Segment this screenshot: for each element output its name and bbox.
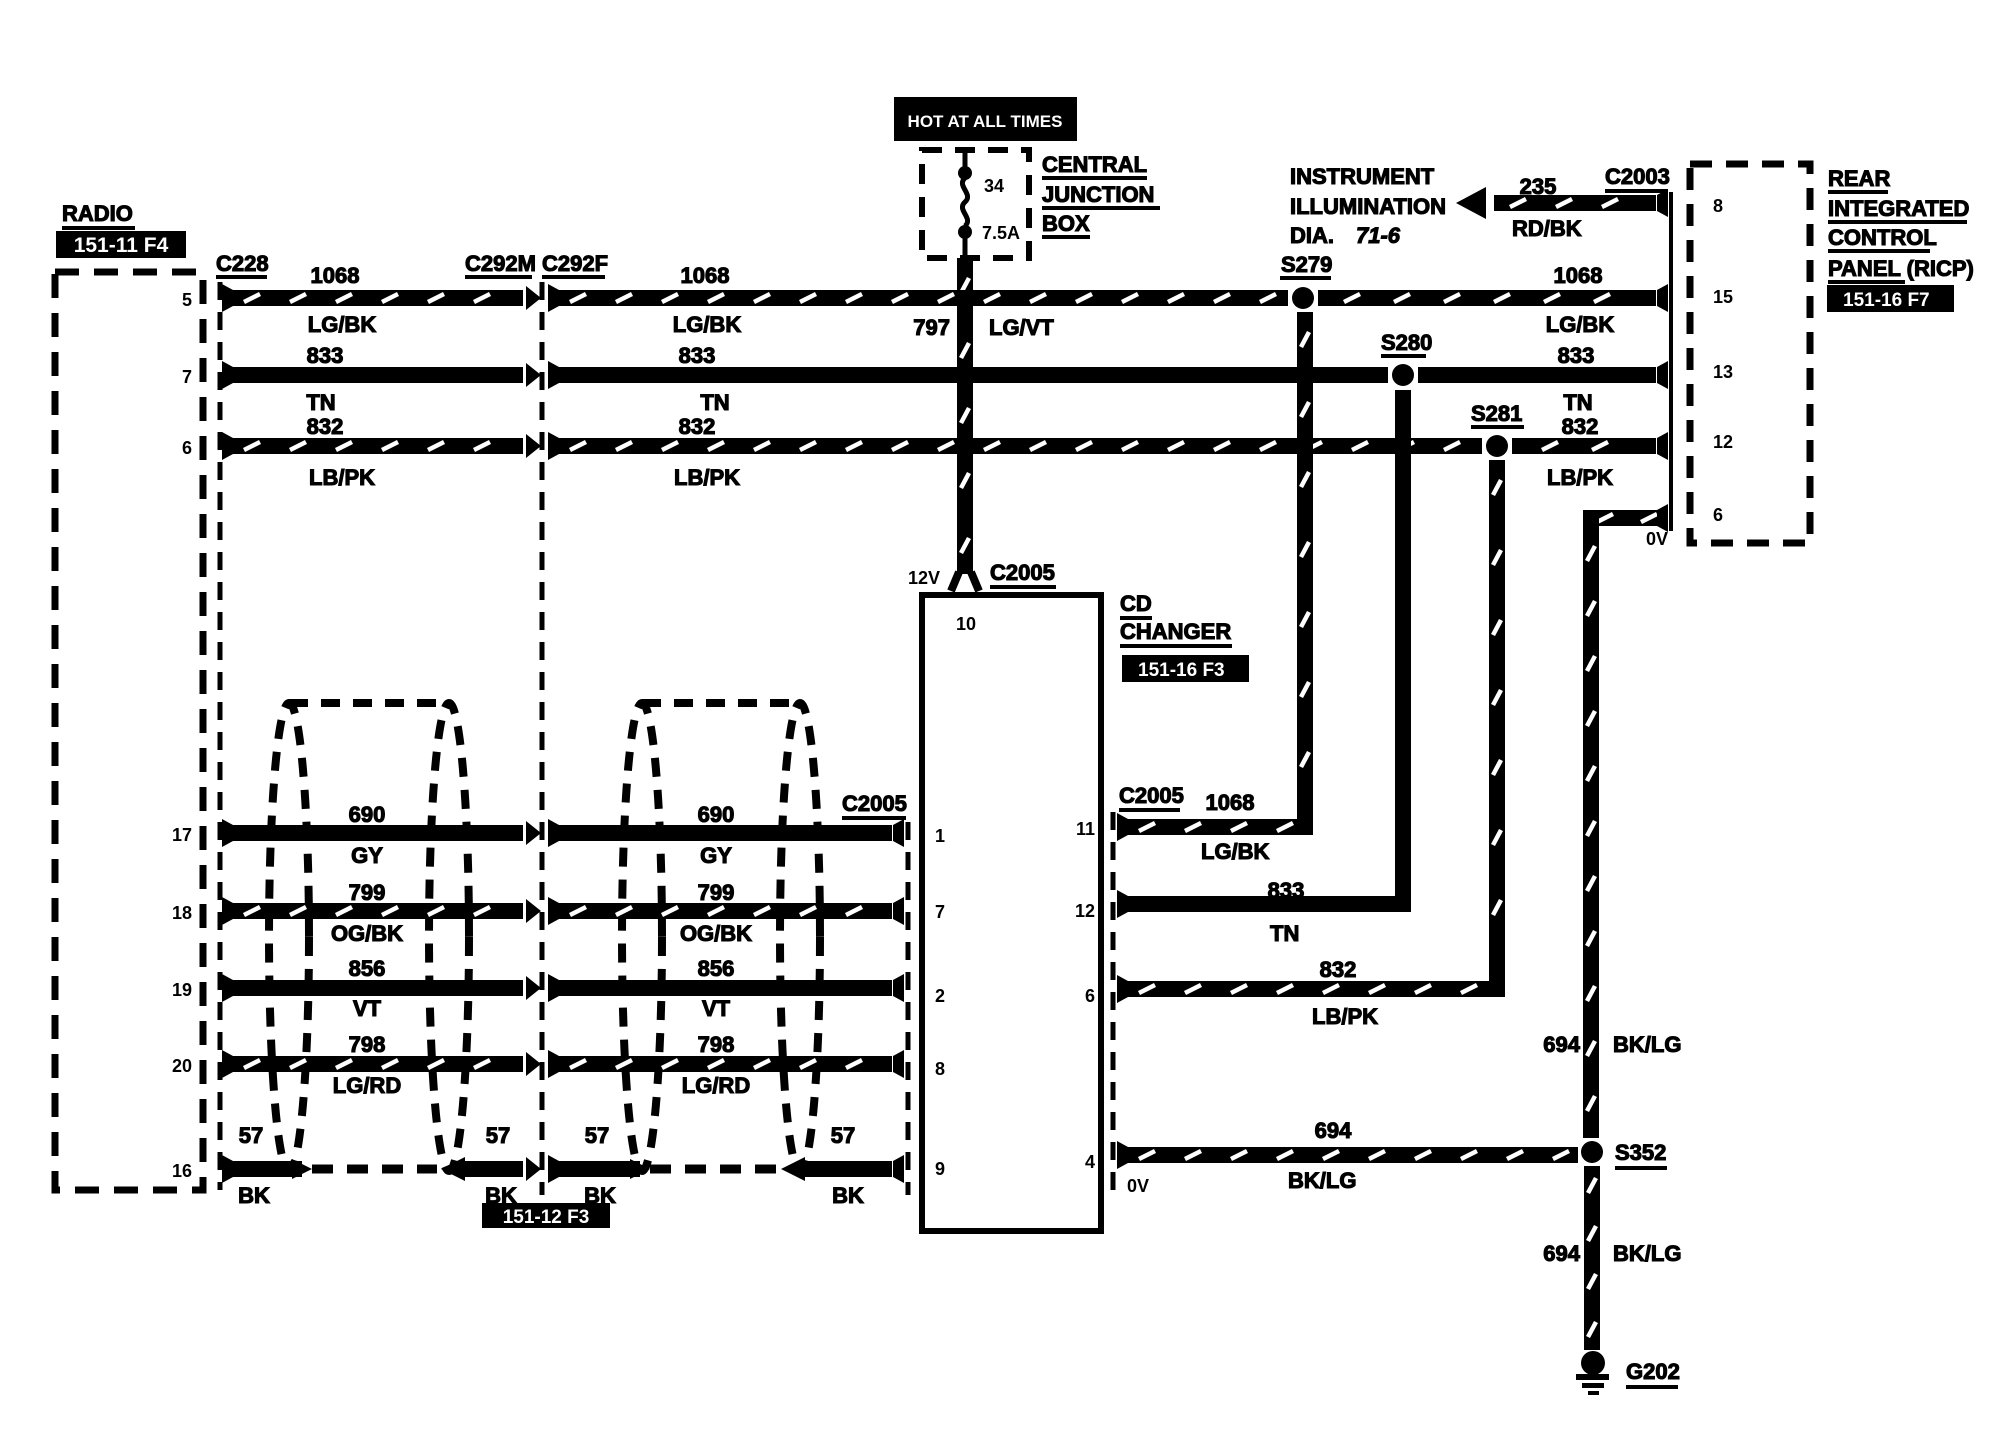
hot at all times label [894, 97, 1077, 141]
wire 1068 LG/BK CD pin11 [1117, 813, 1313, 841]
svg-text:LG/BK: LG/BK [673, 312, 742, 337]
svg-text:INSTRUMENT: INSTRUMENT [1290, 164, 1435, 189]
splice S352 label [1615, 1140, 1667, 1170]
wire 1068 vertical from S279 to CD pin11 [1297, 312, 1313, 835]
connector C2005 label above CD pin1 [842, 791, 907, 820]
fuse 34 7.5A [958, 150, 1020, 258]
svg-text:151-16 F7: 151-16 F7 [1843, 290, 1930, 311]
svg-text:LB/PK: LB/PK [309, 465, 375, 490]
wire 694 BK/LG S352 to G202 [1584, 1166, 1600, 1350]
svg-text:57: 57 [585, 1123, 609, 1148]
svg-text:832: 832 [1320, 957, 1357, 982]
wire 694 BK/LG CD pin4 to S352 [1117, 1141, 1578, 1169]
ground G202 [1576, 1351, 1609, 1395]
splice S280 dot [1392, 364, 1414, 386]
svg-text:694: 694 [1315, 1118, 1352, 1143]
svg-text:6: 6 [182, 438, 192, 458]
svg-text:BK/LG: BK/LG [1613, 1032, 1681, 1057]
wire 57 BK C292F to CD pin9 [548, 1155, 904, 1183]
svg-text:833: 833 [1558, 343, 1595, 368]
svg-text:1: 1 [935, 826, 945, 846]
svg-text:OG/BK: OG/BK [680, 921, 752, 946]
svg-text:17: 17 [172, 825, 192, 845]
svg-text:LG/VT: LG/VT [989, 315, 1054, 340]
svg-text:RD/BK: RD/BK [1512, 216, 1582, 241]
svg-text:BK: BK [238, 1183, 270, 1208]
svg-text:C2005: C2005 [842, 791, 907, 816]
wire 798 LG/RD C292F to CD pin8 [548, 1050, 904, 1078]
CD changer label [1120, 591, 1232, 648]
connector C2005 line left of CD changer [906, 822, 911, 1195]
svg-text:16: 16 [172, 1161, 192, 1181]
splice S280 label [1381, 330, 1432, 358]
wire 833 TN CD pin12 [1117, 890, 1411, 918]
svg-text:15: 15 [1713, 287, 1733, 307]
wire 0V from RICP pin6 [1583, 504, 1668, 1138]
connector C2005 label at CD top [990, 560, 1056, 589]
central junction box (fuse box) [922, 150, 1029, 258]
connector C292 line [540, 282, 545, 1195]
svg-text:7: 7 [182, 367, 192, 387]
svg-text:151-12 F3: 151-12 F3 [503, 1207, 590, 1228]
RICP dashed box [1690, 164, 1810, 543]
svg-text:1068: 1068 [1554, 263, 1603, 288]
svg-text:INTEGRATED: INTEGRATED [1828, 196, 1969, 221]
wire 1068 LG/BK C292F to RICP pin15 [548, 284, 1668, 312]
svg-text:57: 57 [239, 1123, 263, 1148]
svg-text:8: 8 [935, 1059, 945, 1079]
wire 832 LB/PK CD pin6 [1117, 975, 1505, 1003]
radio page ref 151-11 F4 [56, 231, 186, 258]
svg-text:799: 799 [349, 880, 386, 905]
svg-text:833: 833 [307, 343, 344, 368]
svg-text:13: 13 [1713, 362, 1733, 382]
svg-text:832: 832 [679, 414, 716, 439]
svg-text:CHANGER: CHANGER [1120, 619, 1231, 644]
svg-text:OG/BK: OG/BK [331, 921, 403, 946]
wire 799 OG/BK C292F to CD pin7 [548, 897, 904, 925]
RICP page ref 151-16 F7 [1827, 285, 1954, 312]
svg-text:ILLUMINATION: ILLUMINATION [1290, 194, 1446, 219]
svg-text:LB/PK: LB/PK [1547, 465, 1613, 490]
svg-text:1068: 1068 [681, 263, 730, 288]
svg-text:8: 8 [1713, 196, 1723, 216]
svg-text:20: 20 [172, 1056, 192, 1076]
svg-text:S280: S280 [1381, 330, 1432, 355]
svg-text:LB/PK: LB/PK [674, 465, 740, 490]
svg-text:C2005: C2005 [1119, 783, 1184, 808]
connector C2005 line right of CD changer [1111, 812, 1116, 1190]
svg-text:797: 797 [913, 315, 950, 340]
svg-text:856: 856 [698, 956, 735, 981]
wire 690 GY radio pin17 to C292M [222, 819, 541, 847]
svg-text:HOT AT ALL TIMES: HOT AT ALL TIMES [908, 112, 1063, 131]
svg-text:C2003: C2003 [1605, 164, 1670, 189]
wire 798 LG/RD radio pin20 to C292M [222, 1050, 541, 1078]
splice S279 dot [1292, 287, 1314, 309]
CD changer page ref 151-16 F3 [1122, 655, 1249, 682]
svg-text:798: 798 [349, 1032, 386, 1057]
connector C292F label [542, 251, 608, 279]
svg-text:1068: 1068 [1206, 790, 1255, 815]
svg-text:TN: TN [700, 390, 729, 415]
splice S281 label [1471, 401, 1524, 429]
svg-text:C292F: C292F [542, 251, 608, 276]
wire 833 TN C292F to RICP pin13 [548, 361, 1668, 389]
svg-text:DIA.: DIA. [1290, 223, 1334, 248]
svg-text:TN: TN [1270, 921, 1299, 946]
svg-text:235: 235 [1520, 174, 1557, 199]
svg-text:9: 9 [935, 1159, 945, 1179]
svg-text:19: 19 [172, 980, 192, 1000]
wire 833 vertical from S280 to CD pin12 [1395, 390, 1411, 912]
svg-text:799: 799 [698, 880, 735, 905]
svg-text:JUNCTION: JUNCTION [1042, 182, 1154, 207]
wire 832 LB/PK radio pin6 to C292M [222, 432, 541, 460]
svg-text:5: 5 [182, 290, 192, 310]
RICP label [1828, 166, 1974, 284]
svg-text:10: 10 [956, 614, 976, 634]
svg-text:71-6: 71-6 [1356, 223, 1401, 248]
svg-text:833: 833 [1268, 878, 1305, 903]
svg-text:LG/BK: LG/BK [1201, 839, 1270, 864]
instrument illumination note [1290, 164, 1446, 248]
svg-text:S281: S281 [1471, 401, 1522, 426]
svg-text:LG/RD: LG/RD [333, 1073, 401, 1098]
svg-text:694: 694 [1543, 1241, 1580, 1266]
svg-text:11: 11 [1076, 819, 1095, 839]
connector C228 label [216, 251, 269, 279]
svg-text:6: 6 [1713, 505, 1723, 525]
svg-text:TN: TN [1563, 390, 1592, 415]
svg-text:7.5A: 7.5A [982, 223, 1020, 243]
radio label [62, 201, 135, 230]
wire 856 VT radio pin19 to C292M [222, 974, 541, 1002]
wire 832 vertical from S281 to CD pin6 [1489, 460, 1505, 997]
svg-text:LG/RD: LG/RD [682, 1073, 750, 1098]
svg-text:C292M: C292M [465, 251, 536, 276]
svg-text:0V: 0V [1127, 1176, 1149, 1196]
svg-text:2: 2 [935, 986, 945, 1006]
svg-text:690: 690 [698, 802, 735, 827]
RICP connector line C2003 [1669, 192, 1673, 531]
svg-text:LG/BK: LG/BK [1546, 312, 1615, 337]
ground G202 label [1626, 1359, 1680, 1389]
svg-text:C2005: C2005 [990, 560, 1055, 585]
svg-text:6: 6 [1085, 986, 1095, 1006]
svg-text:BK/LG: BK/LG [1288, 1168, 1356, 1193]
svg-text:GY: GY [700, 843, 732, 868]
splice S352 dot [1581, 1141, 1603, 1163]
svg-text:RADIO: RADIO [62, 201, 133, 226]
svg-text:0V: 0V [1646, 529, 1668, 549]
svg-text:151-11 F4: 151-11 F4 [74, 234, 169, 257]
page ref 151-12 F3 [482, 1203, 610, 1228]
svg-text:VT: VT [353, 996, 382, 1021]
svg-text:4: 4 [1085, 1152, 1095, 1172]
svg-text:BK: BK [832, 1183, 864, 1208]
svg-text:833: 833 [679, 343, 716, 368]
svg-text:856: 856 [349, 956, 386, 981]
svg-text:12: 12 [1075, 901, 1095, 921]
wire 235 RD/BK arrow to instrument illumination [1456, 187, 1668, 219]
wire 832 LB/PK C292F to RICP pin12 [548, 432, 1668, 460]
svg-text:832: 832 [307, 414, 344, 439]
svg-text:VT: VT [702, 996, 731, 1021]
svg-text:57: 57 [831, 1123, 855, 1148]
svg-text:832: 832 [1562, 414, 1599, 439]
svg-text:BOX: BOX [1042, 211, 1090, 236]
svg-text:S352: S352 [1615, 1140, 1666, 1165]
svg-text:REAR: REAR [1828, 166, 1890, 191]
wire 799 OG/BK radio pin18 to C292M [222, 897, 541, 925]
svg-text:CD: CD [1120, 591, 1152, 616]
svg-text:CONTROL: CONTROL [1828, 225, 1937, 250]
svg-text:BK/LG: BK/LG [1613, 1241, 1681, 1266]
svg-text:34: 34 [984, 176, 1004, 196]
wire 797 LG/VT vertical [951, 258, 979, 591]
central junction box label [1042, 152, 1160, 239]
svg-text:12V: 12V [908, 568, 940, 588]
svg-text:18: 18 [172, 903, 192, 923]
connector C292M label [465, 251, 536, 279]
CD changer box [922, 595, 1101, 1231]
svg-text:57: 57 [486, 1123, 510, 1148]
svg-text:CENTRAL: CENTRAL [1042, 152, 1147, 177]
svg-text:12: 12 [1713, 432, 1733, 452]
shielded twisted pair group 2 [622, 703, 820, 1171]
wire 833 TN radio pin7 to C292M [222, 361, 541, 389]
wire 57 BK radio pin16 to C292M [222, 1155, 541, 1183]
svg-text:151-16 F3: 151-16 F3 [1138, 660, 1225, 681]
radio dashed box [55, 272, 203, 1190]
svg-text:LG/BK: LG/BK [308, 312, 377, 337]
connector C2005 label right of CD changer [1119, 783, 1184, 812]
connector C2003 label [1605, 164, 1670, 193]
svg-text:690: 690 [349, 802, 386, 827]
wire 1068 LG/BK radio pin5 to C292M [222, 284, 541, 312]
svg-text:798: 798 [698, 1032, 735, 1057]
svg-text:G202: G202 [1626, 1359, 1680, 1384]
svg-text:694: 694 [1543, 1032, 1580, 1057]
svg-text:C228: C228 [216, 251, 269, 276]
svg-text:LB/PK: LB/PK [1312, 1004, 1378, 1029]
svg-text:1068: 1068 [311, 263, 360, 288]
svg-text:TN: TN [306, 390, 335, 415]
wire 856 VT C292F to CD pin2 [548, 974, 904, 1002]
svg-text:PANEL (RICP): PANEL (RICP) [1828, 256, 1974, 281]
shielded twisted pair group 1 [269, 703, 469, 1171]
svg-text:S279: S279 [1281, 252, 1332, 277]
connector C228 line [218, 282, 223, 1190]
splice S281 dot [1486, 435, 1508, 457]
wire 690 GY C292F to CD pin1 [548, 819, 904, 847]
svg-text:GY: GY [351, 843, 383, 868]
svg-text:7: 7 [935, 902, 945, 922]
splice S279 label [1280, 252, 1332, 280]
